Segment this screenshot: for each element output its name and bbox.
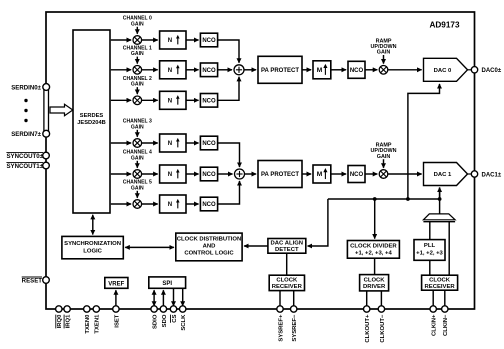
svg-text:SDO: SDO: [162, 314, 168, 327]
svg-text:DAC ALIGN: DAC ALIGN: [271, 241, 304, 247]
svg-text:N: N: [168, 202, 172, 208]
svg-text:CLOCK: CLOCK: [429, 278, 451, 284]
svg-text:SYSREF+: SYSREF+: [278, 314, 284, 342]
svg-text:N: N: [168, 38, 172, 44]
svg-text:CLKOUT−: CLKOUT−: [380, 314, 386, 343]
svg-text:GAIN: GAIN: [131, 82, 144, 88]
svg-text:GAIN: GAIN: [131, 51, 144, 57]
svg-text:RESET: RESET: [22, 278, 43, 285]
svg-text:DRIVER: DRIVER: [363, 284, 386, 290]
svg-text:SYSREF−: SYSREF−: [292, 314, 298, 342]
svg-text:AND: AND: [203, 243, 216, 249]
svg-text:+1, +2, +3: +1, +2, +3: [416, 251, 443, 257]
svg-text:CS: CS: [172, 315, 178, 323]
svg-text:RECEIVER: RECEIVER: [425, 284, 456, 290]
svg-text:SDIO: SDIO: [153, 314, 159, 329]
svg-text:TXEN0: TXEN0: [85, 314, 91, 334]
svg-text:NCO: NCO: [350, 68, 364, 74]
svg-text:N: N: [168, 68, 172, 74]
svg-text:ISET: ISET: [114, 314, 120, 327]
svg-text:SYNCHRONIZATION: SYNCHRONIZATION: [64, 241, 121, 247]
svg-text:NCO: NCO: [202, 99, 216, 105]
svg-text:CONTROL LOGIC: CONTROL LOGIC: [184, 250, 234, 256]
svg-text:GAIN: GAIN: [377, 154, 391, 160]
svg-text:GAIN: GAIN: [377, 50, 391, 56]
svg-text:CLKIN+: CLKIN+: [432, 314, 438, 336]
svg-text:M: M: [317, 171, 323, 178]
svg-text:DETECT: DETECT: [275, 247, 299, 253]
svg-text:SPI: SPI: [162, 281, 172, 287]
svg-text:NCO: NCO: [202, 38, 216, 44]
svg-text:DAC 1: DAC 1: [434, 172, 452, 178]
svg-text:GAIN: GAIN: [131, 155, 144, 161]
svg-text:PA PROTECT: PA PROTECT: [261, 172, 299, 178]
svg-text:CLOCK DISTRIBUTION: CLOCK DISTRIBUTION: [177, 236, 241, 242]
svg-text:SERDIN0±: SERDIN0±: [11, 84, 41, 91]
svg-text:NCO: NCO: [350, 172, 364, 178]
svg-text:GAIN: GAIN: [131, 21, 144, 27]
svg-text:AD9173: AD9173: [429, 21, 459, 30]
svg-text:LOGIC: LOGIC: [83, 249, 102, 255]
svg-text:TXEN1: TXEN1: [95, 314, 101, 334]
svg-text:N: N: [168, 141, 172, 147]
svg-text:SYNCOUT0±: SYNCOUT0±: [6, 153, 43, 160]
svg-text:VREF: VREF: [108, 282, 124, 288]
svg-text:PA PROTECT: PA PROTECT: [261, 68, 299, 74]
svg-text:CLOCK: CLOCK: [276, 278, 298, 284]
svg-text:GAIN: GAIN: [131, 185, 144, 191]
svg-text:NCO: NCO: [202, 68, 216, 74]
svg-text:DAC1±: DAC1±: [482, 172, 502, 178]
svg-text:CLOCK DIVIDER: CLOCK DIVIDER: [350, 243, 397, 249]
svg-text:JESD204B: JESD204B: [77, 120, 105, 126]
svg-text:CLKIN−: CLKIN−: [443, 314, 449, 336]
svg-text:GAIN: GAIN: [131, 124, 144, 130]
svg-text:+1, +2, +3, +4: +1, +2, +3, +4: [355, 251, 392, 257]
svg-text:N: N: [168, 172, 172, 178]
svg-text:SERDIN7±: SERDIN7±: [11, 131, 41, 138]
svg-text:SCLK: SCLK: [181, 314, 187, 331]
svg-text:M: M: [317, 67, 323, 74]
svg-text:RECEIVER: RECEIVER: [272, 284, 303, 290]
svg-text:CLKOUT+: CLKOUT+: [365, 314, 371, 343]
svg-text:NCO: NCO: [202, 172, 216, 178]
svg-text:NCO: NCO: [202, 141, 216, 147]
svg-text:SERDES: SERDES: [80, 113, 104, 119]
svg-text:DAC0±: DAC0±: [482, 68, 502, 74]
svg-text:PLL: PLL: [424, 243, 436, 249]
svg-text:NCO: NCO: [202, 202, 216, 208]
svg-text:N: N: [168, 98, 172, 104]
svg-text:CLOCK: CLOCK: [364, 277, 386, 283]
svg-text:DAC 0: DAC 0: [434, 68, 452, 74]
svg-text:IRQ1: IRQ1: [66, 314, 72, 328]
svg-text:SYNCOUT1±: SYNCOUT1±: [6, 163, 43, 170]
svg-text:IRQ0: IRQ0: [57, 314, 63, 328]
